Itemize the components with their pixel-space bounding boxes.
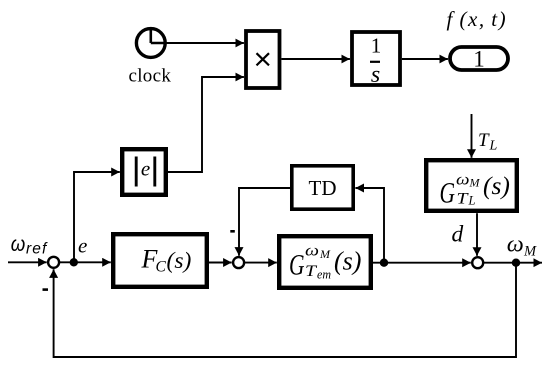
svg-text:ω: ω (305, 243, 319, 260)
svg-text:ref: ref (26, 241, 48, 258)
svg-text:(s): (s) (167, 248, 192, 274)
svg-text:G: G (289, 249, 305, 282)
svg-text:s: s (371, 62, 380, 88)
svg-text:1: 1 (371, 34, 382, 58)
svg-text:C: C (156, 259, 167, 276)
svg-text:G: G (440, 177, 456, 210)
svg-text:T: T (478, 130, 490, 151)
svg-text:em: em (317, 268, 331, 282)
svg-text:ω: ω (11, 233, 25, 256)
svg-text:(s): (s) (334, 247, 361, 276)
svg-text:L: L (468, 194, 476, 208)
svg-text:clock: clock (129, 66, 172, 87)
svg-text:d: d (452, 222, 464, 248)
svg-text:L: L (489, 139, 498, 154)
svg-text:f (x, t): f (x, t) (447, 7, 508, 31)
svg-text:TD: TD (309, 176, 337, 200)
svg-text:M: M (319, 247, 331, 261)
svg-text:ω: ω (456, 172, 470, 189)
svg-text:M: M (469, 176, 481, 190)
svg-text:T: T (457, 191, 469, 208)
svg-text:(s): (s) (483, 171, 510, 200)
svg-text:1: 1 (473, 47, 485, 72)
svg-text:e: e (141, 157, 150, 181)
svg-text:ω: ω (507, 232, 524, 257)
svg-text:T: T (305, 263, 317, 280)
svg-text:e: e (78, 234, 87, 258)
svg-text:M: M (523, 244, 537, 260)
